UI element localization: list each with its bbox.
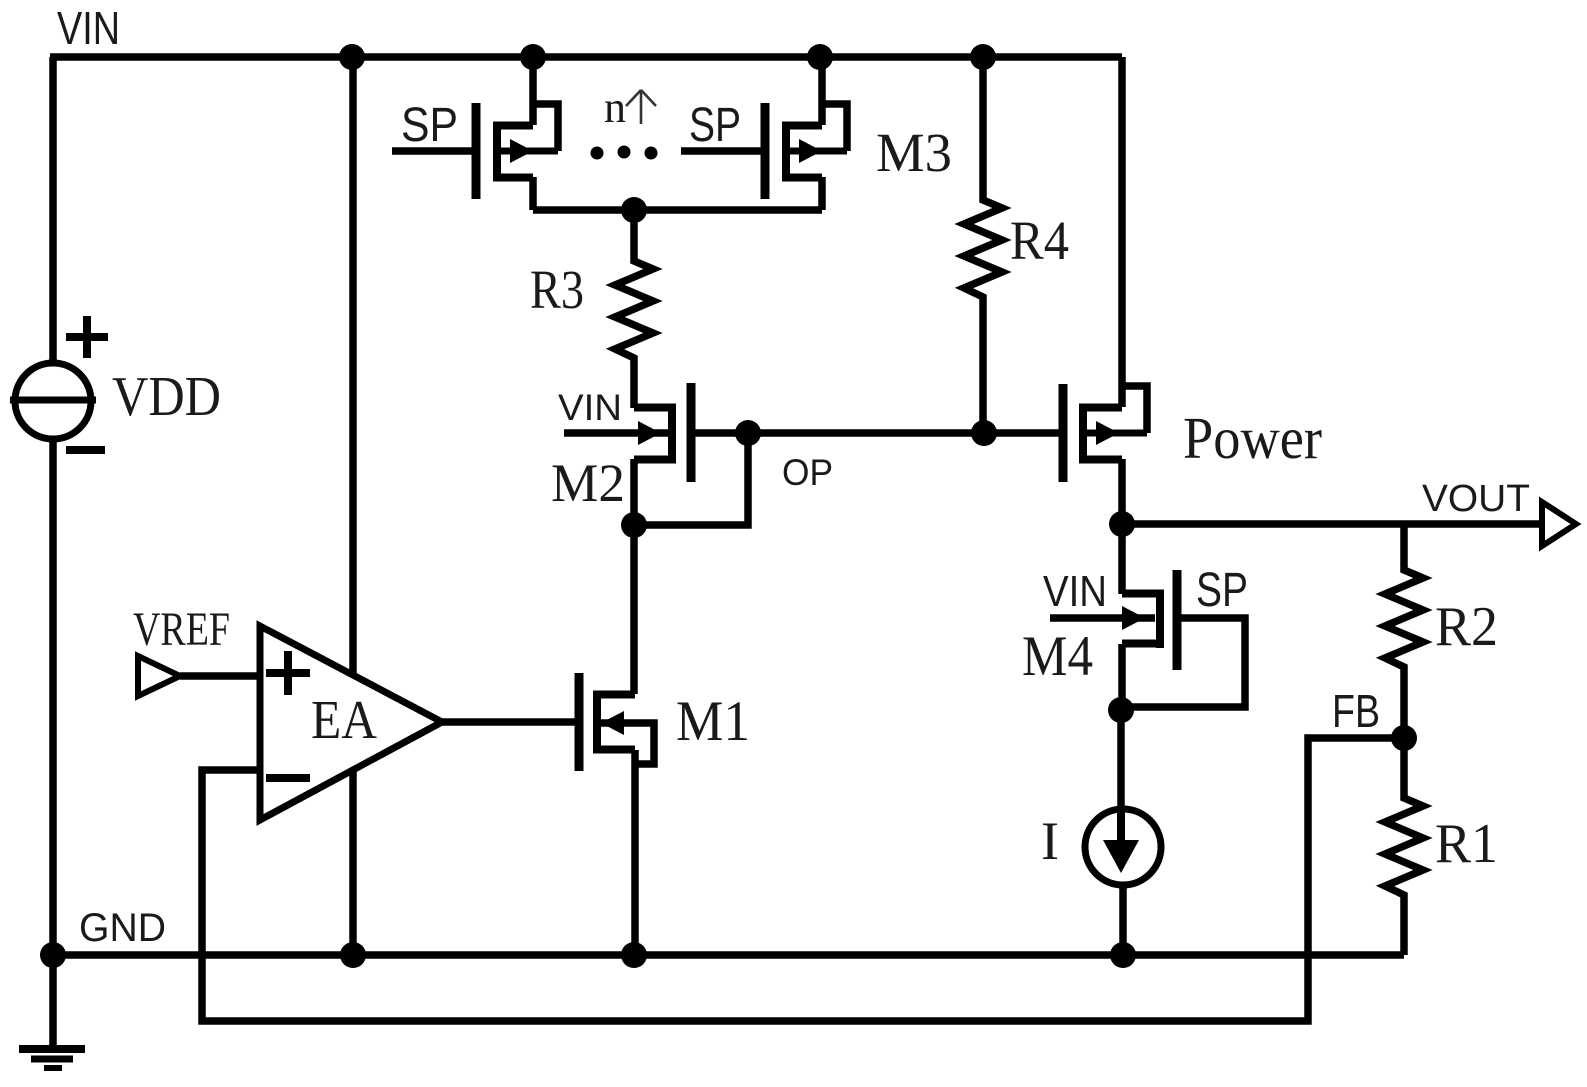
- svg-text:n: n: [604, 83, 626, 132]
- svg-text:VDD: VDD: [112, 366, 221, 428]
- svg-text:M4: M4: [1022, 625, 1093, 688]
- svg-text:R3: R3: [530, 259, 584, 320]
- svg-text:VIN: VIN: [1043, 567, 1107, 616]
- svg-text:FB: FB: [1332, 685, 1380, 737]
- svg-text:SP: SP: [401, 99, 458, 152]
- svg-text:SP: SP: [1196, 564, 1248, 617]
- svg-text:M1: M1: [676, 690, 750, 753]
- svg-text:VREF: VREF: [133, 603, 230, 656]
- svg-text:VIN: VIN: [558, 387, 622, 428]
- svg-text:VOUT: VOUT: [1422, 478, 1530, 520]
- svg-text:R2: R2: [1435, 596, 1498, 658]
- svg-text:R1: R1: [1435, 813, 1498, 875]
- svg-text:M3: M3: [876, 122, 952, 183]
- svg-text:EA: EA: [311, 689, 377, 750]
- svg-text:M2: M2: [551, 453, 625, 513]
- svg-text:SP: SP: [689, 99, 741, 152]
- svg-text:R4: R4: [1010, 210, 1069, 271]
- svg-text:GND: GND: [79, 906, 166, 950]
- svg-text:VIN: VIN: [57, 2, 120, 54]
- svg-text:I: I: [1041, 811, 1059, 871]
- svg-text:OP: OP: [782, 452, 833, 493]
- svg-text:Power: Power: [1183, 405, 1322, 471]
